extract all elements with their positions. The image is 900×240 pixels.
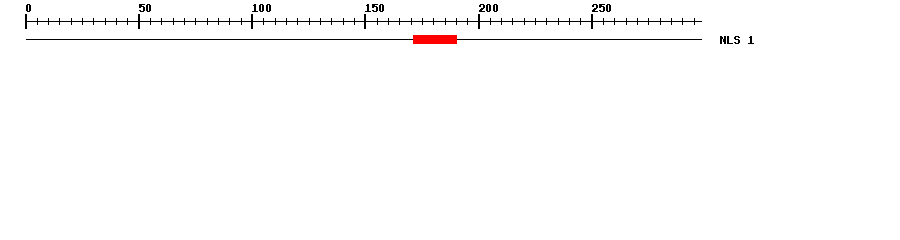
ruler axis line — [26, 21, 702, 22]
ruler label 100 — [252, 4, 271, 12]
ruler major tick 100 — [251, 14, 253, 29]
ruler label 50 — [139, 4, 151, 12]
ruler label 250 — [592, 4, 611, 12]
ruler major tick 200 — [478, 14, 480, 29]
ruler major tick 0 — [25, 14, 27, 29]
sequence line — [26, 39, 702, 40]
ruler label 150 — [365, 4, 384, 12]
ruler minor ticks (every 5 aa) — [37, 18, 695, 25]
domain NLS match box — [413, 35, 457, 44]
ruler major tick 50 — [138, 14, 140, 29]
ruler major tick 250 — [591, 14, 593, 29]
ruler major tick 150 — [364, 14, 366, 29]
ruler label 0 — [26, 4, 31, 12]
ruler label 200 — [479, 4, 498, 12]
label NLS 1 — [720, 36, 754, 44]
